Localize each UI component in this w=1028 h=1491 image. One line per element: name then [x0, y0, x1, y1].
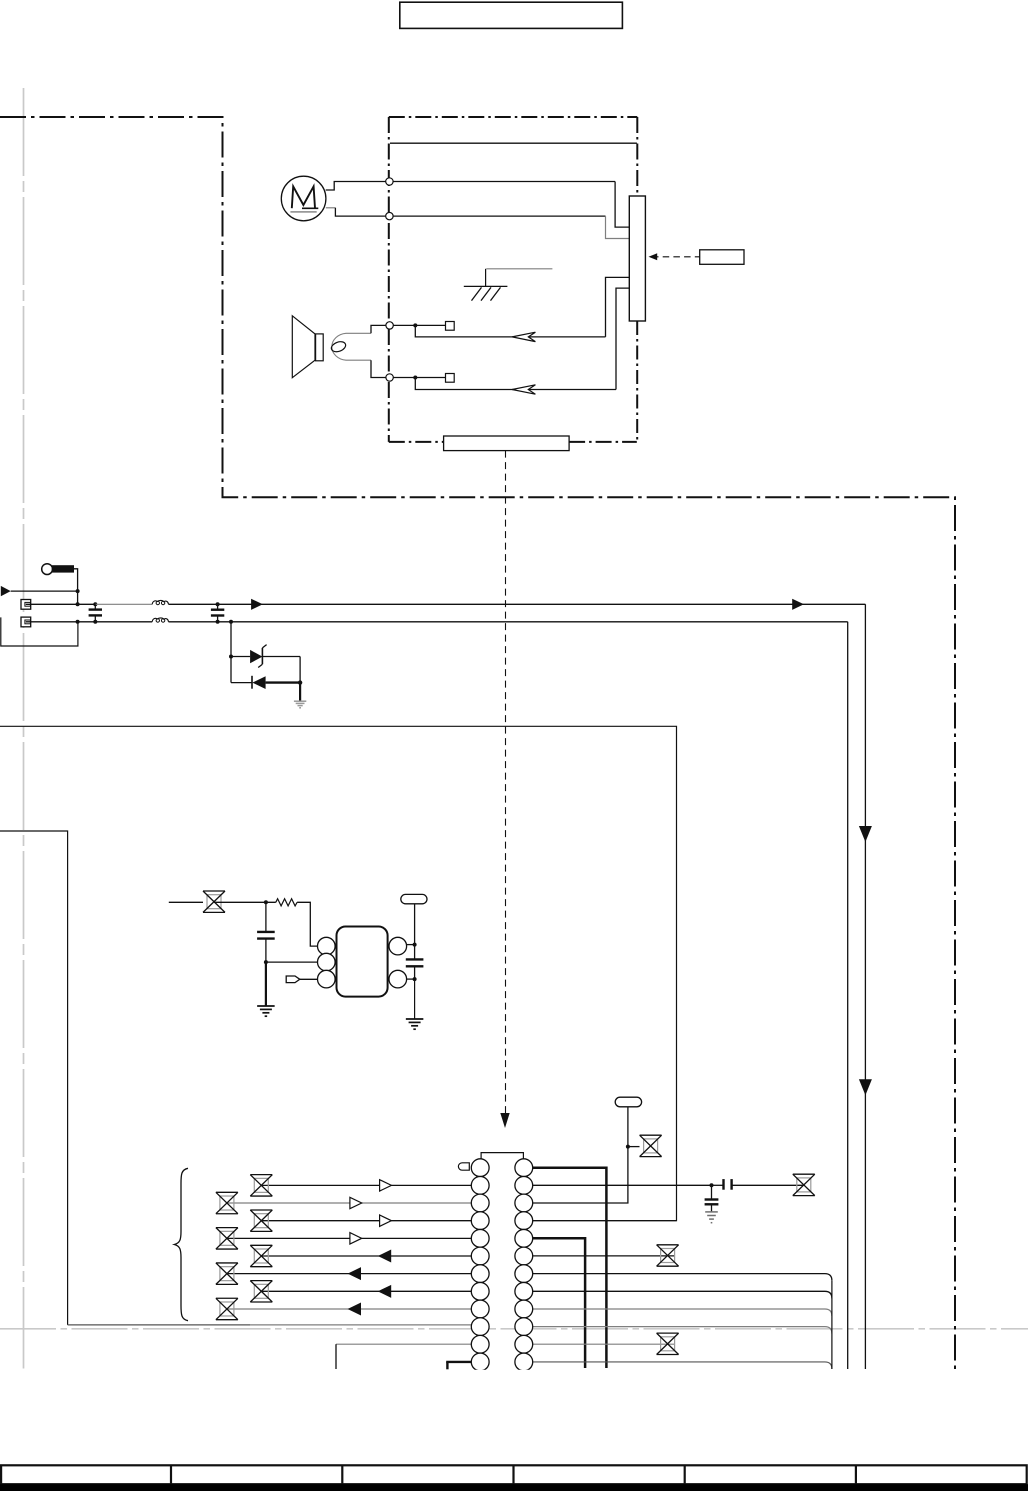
- capacitor C2: [406, 945, 424, 982]
- feedback arrow -: [512, 385, 535, 394]
- page fold mark vertical: [23, 88, 25, 1369]
- capacitor input 2: [211, 604, 224, 622]
- arrow L1: [251, 599, 263, 610]
- feedback arrow +: [512, 332, 535, 341]
- wire R channel: [26, 620, 848, 1369]
- wire row 12 right: [533, 1362, 832, 1369]
- capacitor C4 shunt: [705, 1185, 719, 1211]
- wire row 12 left: [446, 1362, 471, 1369]
- wire row 4 left: [261, 1220, 471, 1222]
- wire row 5 right (bold): [533, 1238, 585, 1368]
- direction arrow row 4: [380, 1215, 392, 1226]
- wire row 2 right: [533, 1183, 723, 1187]
- capacitor C3 series: [724, 1179, 804, 1190]
- diode D2: [252, 676, 302, 701]
- wire row 4 right: [533, 1220, 677, 1222]
- connector CN mech: [629, 196, 645, 321]
- test point row 2 right: [793, 1174, 815, 1195]
- direction arrow row 2: [380, 1180, 392, 1191]
- unit enclosure border: [0, 117, 955, 1369]
- motor M1: [281, 176, 326, 221]
- pin motor -: [386, 212, 393, 219]
- ground IC right: [406, 1019, 424, 1029]
- connector CN bottom: [444, 436, 569, 451]
- callout label box: [700, 250, 744, 264]
- direction arrow row 6: [378, 1250, 391, 1263]
- wire speaker + to connector: [393, 277, 629, 337]
- wire R1 to pin1: [297, 902, 318, 946]
- connector left pins: [471, 1159, 489, 1371]
- test point row 11 right: [657, 1333, 679, 1354]
- test point row 9: [216, 1298, 238, 1319]
- test point row 2: [250, 1175, 272, 1196]
- test point row 6 right: [657, 1245, 679, 1266]
- dashed link to main board: [500, 451, 509, 1128]
- pin speaker -: [386, 374, 393, 381]
- input plug J1: [42, 564, 78, 591]
- footer table: [0, 1465, 1028, 1491]
- resonator X2: [615, 1097, 641, 1107]
- callout arrow: [649, 253, 700, 260]
- connector polarity key: [458, 1163, 469, 1170]
- wire row 6 right: [533, 1255, 675, 1257]
- capacitor input 1: [89, 604, 102, 622]
- test point row 6: [250, 1245, 272, 1266]
- ground C4: [705, 1212, 718, 1223]
- resonator X1: [401, 894, 427, 946]
- wire C1 to ground: [265, 962, 267, 1006]
- test point row 8: [250, 1281, 272, 1302]
- direction arrow row 7: [348, 1267, 361, 1280]
- terminal square input R: [21, 617, 31, 627]
- terminal square input L: [21, 600, 31, 610]
- connector right pins: [515, 1159, 533, 1371]
- capacitor C1: [257, 902, 275, 964]
- arrow down right bus 2: [859, 1079, 872, 1095]
- test point row 3: [216, 1192, 238, 1213]
- test point row 4: [250, 1210, 272, 1231]
- terminal square speaker +: [446, 322, 455, 331]
- wire row 10 right: [533, 1327, 832, 1334]
- page fold mark horizontal: [0, 1328, 1028, 1330]
- wire row 6 left: [261, 1255, 471, 1257]
- wire motor - lead: [326, 208, 630, 239]
- wire row 11 left: [336, 1344, 471, 1369]
- wire row 3 right to resonator: [533, 1107, 630, 1203]
- connector top bracket: [481, 1153, 523, 1159]
- speaker lead loop: [330, 325, 386, 377]
- direction arrow row 9: [348, 1302, 361, 1315]
- wire row 11 right: [533, 1343, 675, 1345]
- direction arrow row 8: [378, 1285, 391, 1298]
- wire L channel: [26, 602, 866, 1369]
- ground diodes: [294, 701, 306, 708]
- inductor R channel: [152, 618, 168, 622]
- resistor R1: [276, 899, 297, 906]
- op-amp U1: [318, 927, 407, 997]
- wire row 5 left: [227, 1237, 471, 1239]
- wire row 3 left: [227, 1202, 471, 1204]
- net tag pin3: [286, 976, 317, 983]
- wire C2 to ground: [414, 979, 416, 1019]
- wire row 2 left: [261, 1184, 471, 1186]
- wire input top: [11, 589, 80, 604]
- wire row 8 left: [261, 1290, 471, 1292]
- shield return: [1, 617, 78, 646]
- direction arrow row 3: [350, 1197, 362, 1208]
- wire to diodes: [229, 622, 252, 683]
- test point row 5: [216, 1228, 238, 1249]
- wire speaker - to connector: [393, 288, 629, 389]
- test point row 7: [216, 1263, 238, 1284]
- harness brace: [174, 1168, 188, 1320]
- wire motor + lead: [326, 182, 630, 228]
- arrow down right bus 1: [859, 826, 872, 842]
- wire to test point X2: [628, 1146, 640, 1148]
- direction arrow row 5: [350, 1233, 362, 1244]
- bus down: [831, 1281, 833, 1369]
- terminal square speaker -: [446, 374, 455, 383]
- mechanism enclosure border: [389, 117, 638, 442]
- sub board outline: [0, 831, 471, 1325]
- inductor L channel: [152, 600, 168, 604]
- wire row 8 right: [533, 1291, 832, 1298]
- input arrow: [1, 586, 11, 596]
- pin motor +: [386, 178, 393, 185]
- test point X2: [640, 1135, 662, 1156]
- wire row 7 left: [227, 1273, 471, 1275]
- chassis ground: [464, 269, 553, 301]
- arrow L2: [792, 599, 804, 610]
- test point TP1: [169, 891, 225, 912]
- wire row 7 right: [533, 1274, 832, 1281]
- speaker SP1: [292, 316, 323, 378]
- ground IC left: [257, 1006, 275, 1016]
- pin speaker +: [386, 322, 393, 329]
- wire C1 to pin2: [266, 961, 318, 963]
- wire TP1 to IC: [214, 900, 276, 904]
- zener diode D1: [250, 645, 300, 683]
- main board outline: [0, 726, 677, 1220]
- wire row 9 right: [533, 1309, 832, 1316]
- wire row 1 right (bold): [533, 1168, 607, 1368]
- wire row 9 left: [227, 1308, 471, 1310]
- title box: [400, 2, 623, 28]
- wire mech top: [390, 142, 637, 144]
